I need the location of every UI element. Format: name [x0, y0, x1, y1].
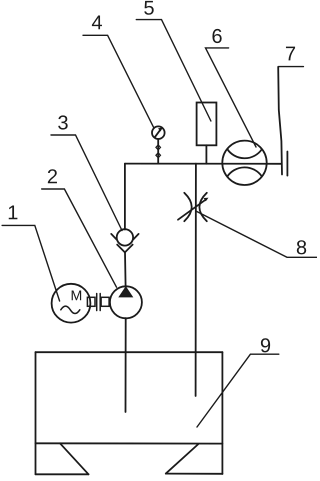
filter / damper 5 rectangle — [197, 103, 217, 146]
check valve 3 — [111, 229, 138, 252]
label digit 5 — [144, 1, 153, 15]
wire: manifold horizontal line — [125, 163, 281, 165]
coupling between motor and pump — [87, 294, 109, 311]
throttle valve 8 — [178, 193, 208, 221]
impingement plate 7 (vertical bar from label) — [278, 67, 282, 175]
label digit 6 — [212, 29, 221, 43]
label 9 leader — [197, 354, 279, 427]
label digit 2 — [48, 169, 57, 183]
label 7 underline — [278, 66, 303, 68]
label 3 leader — [51, 135, 122, 231]
plate bar 2 — [286, 152, 288, 176]
gauge isolator diamond lower — [156, 153, 161, 158]
label 4 leader — [83, 35, 154, 128]
flow meter 6 — [222, 141, 266, 185]
label 5 leader — [136, 20, 211, 121]
wire: filter pipe down to manifold — [205, 145, 207, 163]
wire: left vertical pipe (manifold to check valve) — [124, 164, 126, 230]
gauge isolator diamond upper — [156, 145, 161, 150]
label 6 leader — [206, 48, 257, 147]
label digit 9 — [261, 338, 270, 352]
label 1 leader — [2, 225, 60, 301]
label digit 4 — [92, 15, 102, 29]
label digit 7 — [286, 47, 295, 61]
label 2 leader — [42, 189, 117, 287]
wire: check valve to pump — [124, 252, 127, 286]
motor letter M — [72, 291, 81, 301]
tank 9 — [36, 352, 223, 474]
pump 2 — [110, 286, 142, 318]
pressure gauge 4 body — [152, 126, 165, 139]
label digit 3 — [58, 115, 67, 129]
wire: pump suction into tank — [125, 318, 127, 412]
electric motor 1 — [52, 284, 91, 323]
wire: gauge stem — [157, 139, 159, 164]
wire: throttle return pipe into tank — [195, 164, 197, 396]
label 8 leader — [196, 211, 317, 257]
label digit 8 — [297, 240, 306, 254]
label digit 1 — [9, 206, 18, 220]
